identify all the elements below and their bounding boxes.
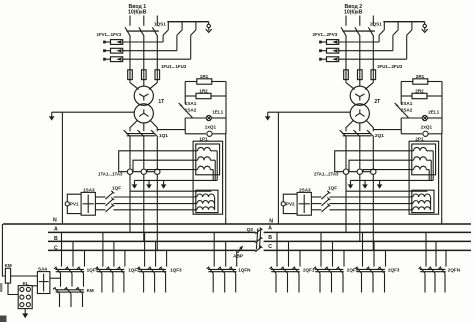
ground of CT circuit 1 [350,180,352,184]
meter block 1P1 outline [193,141,223,214]
wire earthing knife 1 to row [378,35,380,42]
svg-text:2EL1: 2EL1 [428,109,439,114]
wire 2T to 2Q1 left [346,120,354,131]
wire busbar to 1QF1 pole 2 [72,241,74,266]
terminal of 2FV2 [321,50,327,52]
surge arrester 2FV2 [327,48,339,53]
ground of CT circuit 3 [163,180,165,184]
wire 1QF3 pole 2 out [154,273,156,292]
wire lamp block to N bus [441,134,443,224]
tie breaker Q2 pole C [255,247,261,252]
wire busbar to 2QF3 pole 2 [373,241,375,266]
disconnector 1QS1 pole 3 blade [152,27,157,36]
breaker 1QF3 pole 1 blade [139,267,144,273]
switch 2SA1/2SA2 [396,105,408,118]
wire voltage coil link [214,197,216,210]
wire 2QFN pole 1 out [424,273,426,292]
disconnector 1QS1 pole 1 blade [125,27,130,36]
current coil 1 of 1P1 [198,147,211,150]
current coil 2 of 1P1 [198,157,211,160]
earthing knife 1 of 1QS1 [167,22,169,30]
breaker 1QF pole 2 [106,199,114,206]
wire 2QF3 pole 3 out [384,273,386,292]
wire busbar to 2QF2 pole 3 [343,250,345,266]
svg-text:1QF: 1QF [112,186,121,191]
wire phase 3 column [156,36,158,70]
svg-text:C: C [268,244,272,250]
wire earthing knife 3 to row [190,35,192,59]
wire 1QF1 pole 2 out [71,273,73,286]
tie breaker Q2 link bars [256,228,257,249]
wire incoming phase 1 stub [129,16,131,26]
wire 2T to 2Q1 mid [359,123,361,132]
wire 1QF2 pole 1 out [101,273,103,292]
breaker 1QF1 pole 1 blade [56,267,61,273]
wire resistor branch left [400,82,402,105]
wire neutral down to N bus [61,112,63,224]
svg-text:АВР: АВР [233,254,244,260]
wire lamp block to N bus [225,134,227,224]
wire 1T to 1Q1 left [130,120,138,131]
wire current coil 2 return [426,159,431,161]
circuit breaker 2Q1 pole 3 blade [368,132,373,137]
busbar B right section [264,240,471,242]
resistor 1R1 [185,81,197,83]
switch 1SA3 [81,192,95,215]
svg-text:2R2: 2R2 [415,88,424,93]
wire 2QF3 pole 2 out [372,273,374,292]
breaker 1QF2 link bars [97,268,125,270]
svg-text:1SA3: 1SA3 [83,187,95,192]
svg-text:A: A [268,226,272,232]
wire arrester row 1 [339,41,379,43]
wire busbar to 2QF1 pole 3 [299,250,301,266]
wire 1QF2 pole 3 out [123,273,125,292]
svg-text:1TA1...1TA3: 1TA1...1TA3 [98,172,123,177]
svg-text:KM: KM [5,263,12,268]
breaker 2QFN pole 3 blade [440,267,445,273]
wire busbar to 2QF2 pole 1 [320,232,322,266]
wire CT 1TA3 secondary [147,170,197,172]
wire 1QF3 pole 3 out [165,273,167,292]
wire voltage row 1 left [311,196,321,198]
meter block 1P1 voltage section [196,190,218,212]
svg-text:C: C [54,246,58,252]
svg-text:1xQ1: 1xQ1 [205,125,217,130]
fuse 2FU3 [371,70,376,80]
svg-text:PV2: PV2 [286,202,295,207]
transformer 1T primary winding [134,86,153,105]
wire phase A voltage tap [130,190,211,192]
ground of 1T neutral [51,112,53,116]
breaker 1QF2 pole 1 blade [97,267,102,273]
resistor 2R2 [401,95,412,97]
earthing knife 3 of 1QS1 [195,22,197,30]
wire 2Q1 pole 1 down [345,137,347,169]
contactor KM contact 1 blade [55,288,60,294]
switch 1SA1/1SA2 [180,105,192,118]
current coil 2 of 2P1 [414,157,427,160]
breaker 1QFN pole 3 blade [231,267,236,273]
breaker 2QFN pole 1 blade [420,267,425,273]
current transformer 2TA3 [371,169,376,174]
svg-text:Q2: Q2 [247,227,254,233]
auxiliary contact 2xQ1 [401,133,422,135]
wire 1QF3 pole 1 out [143,273,145,292]
voltage coil 2 of 1P1 [197,201,214,204]
svg-text:1QF: 1QF [328,186,337,191]
wire voltage row 3 left [95,209,105,211]
wire incoming phase 2 stub [359,16,361,26]
breaker 2QF2 pole 2 blade [327,267,332,273]
wire voltmeter bottom [67,206,81,214]
ground of CT circuit 3 [379,180,381,184]
svg-text:B: B [268,235,272,241]
wire resistor branch right [441,82,443,134]
earthing knife 2 of 1QS1 [181,22,183,30]
current coil 3 of 2P1 [414,166,427,169]
arrow АВР to Q2 [238,247,242,253]
wire busbar to 1QF3 pole 2 [155,241,157,266]
wire KM coil to KL [8,283,18,294]
wire CT 2TA1 secondary [335,151,414,172]
surge arrester 1FV2 [111,48,123,53]
wire busbar to 1QFN pole 2 [225,241,227,266]
wire 2Q1 pole 3 down [372,137,374,169]
wire voltage row 3 left [311,209,321,211]
breaker 1QF pole 3 [106,205,114,212]
wire lamp row left [400,118,402,134]
breaker 1QFN pole 1 blade [208,267,213,273]
svg-text:2TA1...2TA3: 2TA1...2TA3 [314,172,339,177]
svg-text:N: N [53,218,57,224]
wire fuse 1 to transformer 1T [129,80,131,83]
breaker 1QF3 pole 3 blade [161,267,166,273]
wire 2QF1 pole 1 out [275,273,277,292]
wire 2T to 2Q1 right [366,120,373,131]
svg-text:10(6)кВ: 10(6)кВ [344,9,363,15]
svg-text:1Q1: 1Q1 [159,133,168,139]
breaker 1QF pole 1 [106,192,114,199]
wire 2QF2 pole 3 out [342,273,344,292]
svg-text:2QF1: 2QF1 [303,268,315,273]
wire voltmeter top [283,194,297,202]
circuit breaker 2Q1 pole 2 blade [355,132,360,137]
wire phase 2 column [143,36,145,70]
wire current coil 1 return [210,150,217,152]
wire phase 1 to busbar [345,175,347,233]
surge arrester 1FV3 [111,57,123,62]
resistor 2R1 [401,81,413,83]
svg-text:1T: 1T [158,99,164,105]
wire KM contact 2 out [70,294,72,307]
breaker 2QF3 pole 3 blade [380,267,385,273]
svg-text:2SA1: 2SA1 [401,101,413,106]
disconnector 2QS1 pole 3 blade [368,27,373,36]
wire arrester row 1 [123,41,163,43]
lamp 2EL1 [401,117,422,119]
current transformer 1TA3 [155,169,160,174]
meter block 2P1 outline [409,141,439,214]
wire busbar to 2QFN pole 1 [425,232,427,266]
svg-text:2QFN: 2QFN [448,268,461,273]
earthing knife 3 of 2QS1 [411,22,413,30]
wire busbar to 1QF3 pole 1 [144,232,146,266]
circuit breaker 1Q1 pole 2 blade [139,132,144,137]
meter block 2P1 voltage section [412,190,434,212]
earthing bus of 2QS1 [383,21,424,23]
photo relay KL [18,286,32,309]
breaker 2QFN pole 2 blade [430,267,435,273]
wire CT return row [351,179,434,181]
terminal of 1FV2 [105,50,111,52]
wire 1QF1 pole 3 out [83,273,85,286]
switch 2SA3 [297,192,311,215]
wire busbar to 1QF2 pole 2 [113,241,115,266]
wire lamp row left [184,118,186,134]
wire phase 1 to busbar [129,175,131,233]
busbar C left section [48,249,256,251]
wire busbar to 2QF3 pole 1 [362,232,364,266]
fuse 1FU2 [142,70,147,80]
breaker 1QF2 pole 3 blade [119,267,124,273]
wire 1Q1 pole 1 down [129,137,131,169]
wire phase 1 column [129,36,131,70]
fuse 2FU1 [344,70,349,80]
busbar B left section [48,240,256,242]
wire fuse 2 to transformer 2T [359,80,361,87]
transformer 2T primary winding [350,86,369,105]
wire 1Q1 to lamp block [157,129,185,131]
wire KM contact 3 out [82,294,84,307]
svg-text:1FU1...1FU3: 1FU1...1FU3 [161,64,187,69]
breaker 2QF3 pole 1 blade [357,267,362,273]
surge arrester 1FV1 [111,40,123,45]
breaker 1QF pole 3 [322,205,330,212]
current coil 1 of 2P1 [414,147,427,150]
wire voltage row 2 right [114,203,197,205]
wire current coil 3 return [426,169,429,171]
breaker 1QF pole 2 [322,199,330,206]
fuse 2FU2 [358,70,363,80]
wire fuse 3 to transformer 1T [156,80,158,83]
wire incoming phase 3 stub [156,16,158,26]
wire current coil 3 return [210,169,213,171]
circuit breaker 2Q1 link bars [342,133,371,135]
wire phase 3 column [372,36,374,70]
breaker 1QF pole 1 [322,192,330,199]
svg-text:2FU1...2FU3: 2FU1...2FU3 [377,64,403,69]
wire phase 2 to busbar [143,175,145,242]
svg-text:2T: 2T [374,99,380,105]
scan smudge left edge [0,283,2,292]
wire current coil 2 return [210,159,215,161]
wire CT 1TA1 secondary [119,151,198,172]
wire busbar to 2QF3 pole 3 [385,250,387,266]
wire 2QF2 pole 2 out [331,273,333,292]
wire transformer 1T neutral [52,111,134,113]
wire voltage row 1 left [95,196,105,198]
wire voltage row 1 right [330,196,413,198]
wire transformer 2T neutral [268,111,350,113]
wire neutral down to N bus [277,112,279,224]
wire 2Q1 to lamp block [373,129,401,131]
breaker 2QFN link bars [420,268,446,270]
wire busbar to 1QFN pole 3 [236,250,238,266]
wire incoming phase 2 stub [143,16,145,26]
wire arrester row 3 [123,58,191,60]
busbar A right section [264,231,471,233]
wire phase 3 to busbar [372,175,374,251]
circuit breaker 2Q1 pole 1 blade [341,132,346,137]
svg-text:1R2: 1R2 [199,88,208,93]
surge arrester 2FV1 [327,40,339,45]
wire phase 2 column [359,36,361,70]
breaker 1QF3 pole 2 blade [150,267,155,273]
surge arrester 2FV3 [327,57,339,62]
svg-text:N: N [269,218,273,224]
ground of CT circuit 2 [364,180,366,184]
wire busbar to 2QFN pole 2 [435,241,437,266]
transformer 1T secondary winding [134,104,153,123]
svg-text:KL: KL [23,281,29,286]
wire fuse 1 to transformer 2T [345,80,347,83]
breaker 2QF2 pole 1 blade [315,267,320,273]
ground of CT circuit 1 [134,180,136,184]
voltmeter PV2 [281,202,285,206]
earthing knife 1 of 2QS1 [383,22,385,30]
wire voltage row 1 right [114,196,197,198]
earthing knife 2 of 2QS1 [397,22,399,30]
wire busbar to 2QFN pole 3 [445,250,447,266]
switch SA4 [37,272,50,294]
auxiliary contact 1xQ1 [185,133,206,135]
wire incoming phase 1 stub [345,16,347,26]
svg-text:2QS1: 2QS1 [370,21,382,26]
wire 1T to 1Q1 mid [143,123,145,132]
voltage coil 3 of 2P1 [413,207,430,210]
breaker 2QF2 pole 3 blade [338,267,343,273]
svg-text:2FV1...2FV3: 2FV1...2FV3 [313,32,338,37]
wire arrester row 2 [339,50,393,52]
wire earthing knife 1 to row [162,35,164,42]
svg-text:1QS1: 1QS1 [154,21,166,26]
current transformer 2TA2 [357,169,362,174]
wire voltmeter top [67,194,81,202]
wire busbar to 1QF1 pole 1 [61,232,63,266]
contactor KM contact 3 blade [78,288,83,294]
wire 2QF1 pole 3 out [298,273,300,292]
svg-text:SA4: SA4 [38,266,47,271]
disconnector 2QS1 pole 1 blade [341,27,346,36]
wire busbar to 1QF3 pole 3 [166,250,168,266]
current coil 3 of 1P1 [198,166,211,169]
ground of CT circuit 2 [148,180,150,184]
wire voltage coil link [430,197,432,210]
wire busbar to 1QF2 pole 1 [102,232,104,266]
wire N bus to contactor KM coil [2,224,5,276]
busbar A left section [48,231,256,233]
voltage coil 1 of 2P1 [413,194,430,197]
wire 1T to 1Q1 right [150,120,157,131]
wire incoming phase 3 stub [372,16,374,26]
current transformer 2TA1 [343,169,348,174]
transformer 2T secondary winding [350,104,369,123]
breaker 1QF1 link bars [55,268,84,270]
meter block 2P1 current section [412,144,436,175]
wire voltage row 3 right [330,209,413,211]
svg-text:1SA1: 1SA1 [185,101,197,106]
wire 1QFN pole 1 out [212,273,214,292]
breaker 2QF1 pole 3 blade [294,267,299,273]
wire 1QF1 pole 1 out [60,273,62,286]
ground of 2T neutral [267,112,269,116]
wire 1QFN pole 3 out [235,273,237,292]
circuit breaker 1Q1 pole 1 blade [125,132,130,137]
wire phase 2 to busbar [359,175,361,242]
breaker 2QF1 pole 1 blade [271,267,276,273]
wire 1QF2 pole 2 out [112,273,114,292]
fuse 1FU3 [155,70,160,80]
busbar N [3,223,471,225]
wire 2QF3 pole 1 out [361,273,363,292]
wire phase 3 to busbar [156,175,158,251]
wire busbar to 1QF1 pole 3 [84,250,86,266]
voltage coil 1 of 1P1 [197,194,214,197]
wire CT 2TA3 secondary [363,170,413,172]
wire voltage row 3 right [114,209,197,211]
scan smudge bottom-left [0,316,7,322]
disconnector 2QS1 pole 2 blade [355,27,360,36]
disconnector 1QS1 link bar [127,30,159,32]
voltmeter PV1 [65,202,69,206]
ground symbol at 1QS1 earthing bus [208,22,210,25]
svg-text:1FV1...1FV3: 1FV1...1FV3 [97,32,122,37]
wire resistor branch right [225,82,227,134]
svg-text:10(6)кВ: 10(6)кВ [128,9,147,15]
contactor KM link bars [55,289,84,291]
earthing bus of 1QS1 [167,21,208,23]
breaker 2QF3 link bars [356,268,385,270]
wire 2QFN pole 3 out [444,273,446,292]
wire busbar to 2QF1 pole 2 [288,241,290,266]
disconnector 1QS1 pole 2 blade [139,27,144,36]
disconnector 2QS1 link bar [343,30,375,32]
tie breaker Q2 pole A [255,229,261,234]
breaker 1QFN pole 2 blade [220,267,225,273]
wire voltage row 2 right [330,203,413,205]
wire KM contact 1 out [59,294,61,307]
terminal of 1FV3 [105,58,111,60]
wire earthing knife 2 to row [392,35,394,51]
breaker 1QF2 pole 2 blade [108,267,113,273]
resistor 1R2 [185,95,196,97]
wire voltage row 2 left [311,203,321,205]
wire current coil 1 return [426,150,433,152]
breaker 1QFN link bars [208,268,236,270]
lamp 1EL1 [185,117,206,119]
wire busbar to 2QF2 pole 2 [332,241,334,266]
wire voltage row 2 left [95,203,105,205]
svg-text:A: A [54,227,58,233]
wire 2Q1 pole 2 down [359,137,361,169]
svg-text:2QF3: 2QF3 [388,268,400,273]
breaker 2QF1 pole 2 blade [283,267,288,273]
wire fuse 3 to transformer 2T [372,80,374,83]
wire fuse 2 to transformer 1T [143,80,145,87]
breaker 2QF1 link bars [271,268,300,270]
breaker 1QF1 pole 2 blade [67,267,72,273]
